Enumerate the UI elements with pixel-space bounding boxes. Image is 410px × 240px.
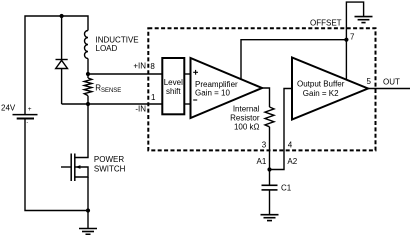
svg-text:SWITCH: SWITCH [94, 165, 126, 174]
svg-text:LOAD: LOAD [96, 44, 118, 53]
svg-text:C1: C1 [281, 184, 292, 193]
svg-text:Output Buffer: Output Buffer [297, 80, 345, 89]
svg-text:Gain = K2: Gain = K2 [303, 89, 339, 98]
svg-text:POWER: POWER [94, 155, 124, 164]
svg-text:+IN: +IN [133, 62, 146, 71]
svg-text:-IN: -IN [135, 104, 146, 113]
svg-text:shift: shift [166, 87, 181, 96]
svg-text:4: 4 [288, 141, 293, 150]
svg-text:Gain = 10: Gain = 10 [195, 88, 230, 97]
svg-text:8: 8 [150, 62, 155, 71]
svg-text:24V: 24V [1, 104, 16, 113]
svg-text:3: 3 [262, 141, 267, 150]
svg-text:1: 1 [151, 93, 156, 102]
svg-text:7: 7 [350, 32, 355, 41]
svg-text:+: + [28, 106, 32, 113]
svg-text:Internal: Internal [233, 105, 260, 114]
svg-text:Level: Level [164, 78, 183, 87]
svg-text:100 kΩ: 100 kΩ [234, 123, 260, 132]
svg-text:OUT: OUT [383, 78, 400, 87]
svg-text:Resistor: Resistor [230, 114, 260, 123]
svg-text:A2: A2 [287, 157, 297, 166]
svg-text:OFFSET: OFFSET [310, 19, 342, 28]
svg-text:5: 5 [367, 77, 372, 86]
svg-text:A1: A1 [257, 157, 267, 166]
